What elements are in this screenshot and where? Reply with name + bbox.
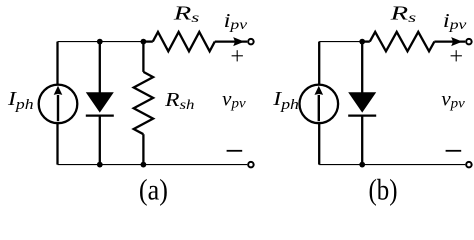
- svg-text:(a): (a): [139, 173, 168, 206]
- svg-text:(b): (b): [369, 173, 398, 206]
